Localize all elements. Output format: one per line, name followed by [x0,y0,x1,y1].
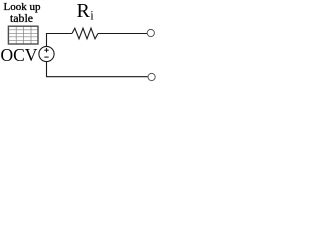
look-up table icon (grid) [8,26,38,44]
wires [47,28,149,76]
svg-text:OCV: OCV [1,45,38,65]
svg-text:R: R [77,0,91,22]
resistor Ri [72,28,98,39]
plus polarity mark [44,49,48,51]
svg-text:i: i [90,9,94,23]
terminal node (top right, open circle) [147,29,154,36]
svg-text:table: table [10,11,33,25]
terminal node (bottom right, open circle) [148,73,155,80]
minus polarity mark [44,56,48,58]
wire: source top to top rail [47,34,73,47]
wire: resistor to top terminal [98,33,147,35]
label Ri (R with subscript i) [77,0,95,23]
wire: source bottom down and right to bottom terminal [47,62,149,77]
voltage source OCV (circle with +/-) [39,46,54,61]
